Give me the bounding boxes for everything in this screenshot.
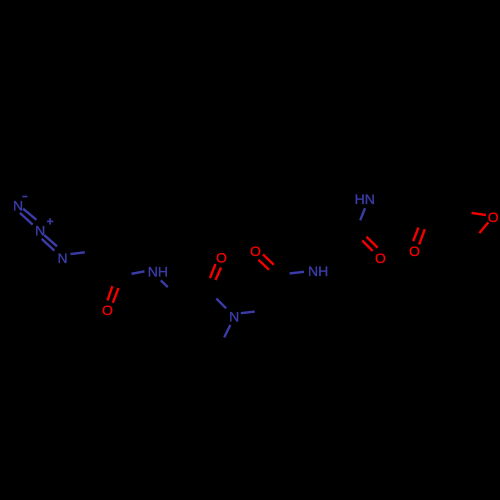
svg-text:O: O — [488, 209, 499, 225]
svg-text:N: N — [13, 198, 23, 214]
svg-text:N: N — [229, 309, 239, 325]
svg-text:N: N — [35, 223, 45, 239]
svg-text:O: O — [250, 243, 261, 259]
svg-text:N: N — [58, 250, 68, 266]
svg-text:O: O — [375, 250, 386, 266]
svg-text:HN: HN — [355, 191, 375, 207]
svg-text:O: O — [409, 243, 420, 259]
svg-text:O: O — [216, 250, 227, 266]
svg-text:O: O — [102, 302, 113, 318]
svg-text:NH: NH — [148, 263, 168, 279]
svg-text:NH: NH — [308, 263, 328, 279]
